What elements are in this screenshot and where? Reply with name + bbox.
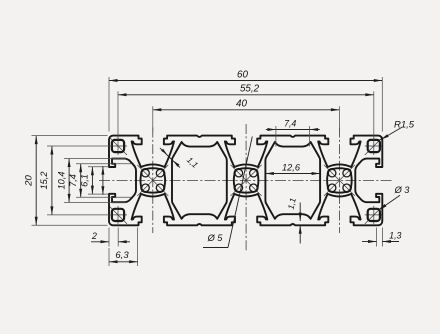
- screw bore 3 corner relief circles: [328, 169, 336, 177]
- dimension 7,4 (left): [80, 164, 82, 198]
- svg-text:Ø 5: Ø 5: [207, 233, 224, 243]
- small vertical dimension at lip openings: [102, 166, 104, 195]
- svg-text:1,1: 1,1: [185, 155, 200, 170]
- dimension 60: [109, 80, 382, 82]
- bore 1 diagonal centerlines: [137, 165, 168, 196]
- dimension 1,3: [376, 228, 378, 247]
- corner hole centerlines: [365, 137, 383, 155]
- svg-text:6,1: 6,1: [80, 174, 90, 187]
- svg-text:6,3: 6,3: [115, 250, 129, 261]
- svg-text:60: 60: [237, 69, 248, 80]
- cavity between bore2 and bore3: [265, 142, 320, 219]
- svg-text:1,1: 1,1: [286, 197, 298, 210]
- corner screw channel: [368, 140, 380, 152]
- corner hole centerlines: [109, 206, 127, 224]
- vertical centerline bore 1: [152, 128, 154, 234]
- svg-text:12,6: 12,6: [282, 162, 301, 172]
- leader Ø5: [203, 247, 228, 249]
- vertical centerline bore 2: [245, 124, 247, 251]
- profile outer contour with T-slots: [109, 136, 382, 226]
- screw bore 2 (square channel): [234, 168, 259, 193]
- horizontal centerline: [99, 179, 393, 181]
- dimension 40: [153, 109, 340, 111]
- bore 3 diagonal centerlines: [324, 165, 355, 196]
- corner screw channel: [112, 209, 124, 221]
- svg-text:20: 20: [24, 175, 35, 187]
- svg-text:55,2: 55,2: [240, 84, 260, 95]
- svg-text:Ø 3: Ø 3: [394, 185, 411, 195]
- bore 2 diagonal centerlines: [231, 165, 262, 196]
- leader R1,5: [381, 128, 402, 140]
- dimension 7,4 (cavity top width): [276, 129, 310, 131]
- leader Ø3: [379, 195, 400, 210]
- dimension 6,1: [91, 167, 93, 194]
- svg-text:R1,5: R1,5: [394, 119, 415, 130]
- screw bore 1 corner relief circles: [142, 169, 150, 177]
- screw bore 3 (square channel): [327, 168, 352, 193]
- dimension 12,6: [265, 173, 320, 175]
- dimension 10,4: [68, 159, 70, 203]
- svg-text:7,4: 7,4: [284, 119, 296, 129]
- corner hole centerlines: [365, 206, 383, 224]
- svg-text:10,4: 10,4: [56, 172, 66, 190]
- corner screw channel: [368, 209, 380, 221]
- dimension 15,2: [51, 146, 53, 215]
- svg-text:2: 2: [91, 231, 97, 241]
- dimension 1,1 (web): [160, 148, 180, 168]
- vertical centerline bore 3: [338, 128, 340, 234]
- screw bore 2 corner relief circles: [235, 169, 243, 177]
- svg-text:7,4: 7,4: [68, 174, 78, 187]
- dimension 2: [108, 228, 110, 247]
- dimension 1,1 (bottom wall): [299, 203, 301, 222]
- dimension 55,2: [118, 94, 374, 96]
- dimension 20: [35, 136, 37, 226]
- dimension 6,3: [108, 248, 110, 266]
- svg-text:1,3: 1,3: [389, 230, 401, 240]
- corner screw channel: [112, 140, 124, 152]
- screw bore 1 (square channel): [141, 168, 166, 193]
- cavity between bore1 and bore2: [172, 142, 227, 219]
- svg-text:40: 40: [236, 99, 247, 110]
- corner hole centerlines: [109, 137, 127, 155]
- svg-text:15,2: 15,2: [39, 172, 49, 190]
